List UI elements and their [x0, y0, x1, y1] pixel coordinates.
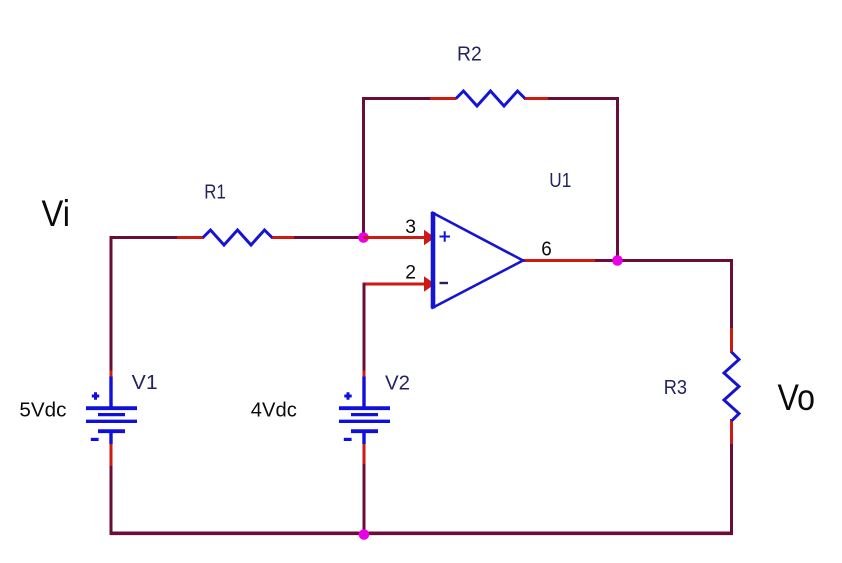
junction node at op-amp output: [612, 255, 623, 266]
svg-text:3: 3: [405, 217, 416, 238]
wire: feedback net left leg up and top rail to R2 (maroon): [364, 99, 433, 238]
svg-text:5Vdc: 5Vdc: [19, 400, 66, 422]
V2 top stub: [362, 377, 365, 410]
wire: red above R3: [730, 328, 733, 353]
wire: maroon output segment to junction: [595, 259, 618, 262]
wire: bottom ground rail (maroon): [110, 531, 733, 535]
wire: Vi input net, left vertical + top horizontal (maroon): [111, 238, 178, 373]
V2 plus marker: [344, 392, 351, 399]
V1 plate 4 short: [98, 429, 125, 433]
pin 3 arrowhead: [424, 230, 435, 246]
wire: red stub above V2: [363, 371, 366, 379]
V2 bottom stub: [362, 430, 365, 444]
wire: pin 3 red overlay across junction: [364, 236, 401, 239]
svg-text:R1: R1: [204, 181, 226, 204]
svg-text:U1: U1: [549, 169, 571, 192]
wire: top rail right + right leg down to output junction (maroon): [548, 99, 618, 261]
V2 plate 3 long: [339, 420, 390, 423]
op-amp minus symbol: [440, 282, 449, 284]
svg-text:R2: R2: [457, 42, 482, 65]
op-amp U1 left edge (thick): [431, 212, 436, 309]
wire: red stub above V1: [110, 371, 113, 379]
op-amp plus symbol: [440, 231, 451, 241]
wire: V2 net vertical maroon from pin2 corner down: [363, 283, 366, 372]
svg-text:R3: R3: [664, 376, 687, 399]
wire: output junction to R3 top (maroon): [618, 261, 732, 331]
V2 plate 4 short: [351, 429, 378, 433]
V2 plate 1 long: [339, 406, 390, 410]
V2 minus marker: [344, 438, 352, 441]
svg-text:Vo: Vo: [778, 376, 816, 418]
svg-text:4Vdc: 4Vdc: [251, 400, 297, 422]
svg-text:2: 2: [405, 262, 416, 283]
pin 2 arrowhead: [424, 276, 435, 292]
V1 plate 2 short: [98, 413, 125, 416]
wire: maroon V1 bottom to ground rail: [110, 466, 113, 535]
junction node on ground rail at V2: [359, 529, 370, 540]
svg-text:6: 6: [541, 239, 552, 261]
wire: pin 3 red input wire: [364, 236, 427, 239]
wire: pin 2 red input wire: [363, 283, 427, 286]
battery V1: [86, 377, 137, 445]
wire: maroon R3 bottom to ground rail: [730, 444, 733, 535]
wire: red segment right of R1: [271, 236, 296, 239]
V1 plate 1 long: [86, 406, 137, 410]
wire: op-amp output red segment: [522, 259, 597, 262]
V1 minus marker: [91, 438, 99, 441]
resistor R3 (vertical zigzag): [724, 352, 739, 421]
svg-text:V2: V2: [385, 371, 410, 394]
resistor R2 (zigzag): [456, 91, 525, 106]
op-amp U1 triangle: [433, 213, 523, 308]
svg-text:Vi: Vi: [42, 192, 71, 234]
wire: maroon V2 bottom to ground rail: [363, 464, 366, 535]
V1 plus marker: [92, 392, 99, 399]
wire: red below V2 battery: [363, 443, 366, 465]
wire: maroon segment R1 to junction: [294, 236, 364, 239]
wire: red segment left of R1: [177, 236, 204, 239]
battery V2: [339, 377, 390, 445]
wire: red segment right of R2: [524, 97, 550, 100]
wire: red below V1 battery: [110, 443, 113, 467]
svg-text:V1: V1: [132, 371, 158, 394]
resistor R1 (zigzag): [203, 230, 272, 245]
V1 top stub: [109, 377, 112, 410]
V1 bottom stub: [109, 430, 112, 444]
junction node at R1 / feedback / pin3: [358, 232, 369, 243]
V1 plate 3 long: [86, 420, 137, 423]
wire: red segment left of R2: [430, 97, 457, 100]
V2 plate 2 short: [351, 413, 378, 416]
wire: red below R3: [730, 419, 733, 446]
